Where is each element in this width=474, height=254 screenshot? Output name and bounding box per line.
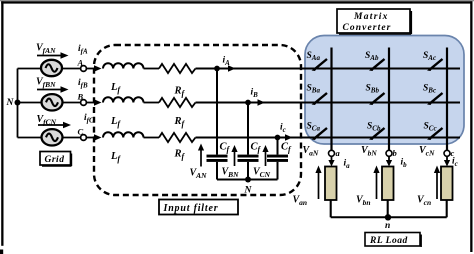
voltage arrow Vbn <box>356 166 380 208</box>
svg-text:Input filter: Input filter <box>163 203 219 214</box>
capacitor Cf phase A <box>207 69 231 180</box>
load element phase b <box>382 167 394 201</box>
wire phase B to converter <box>196 101 461 103</box>
wire output line b <box>388 48 390 151</box>
RL Load label <box>365 233 421 248</box>
load element phase c <box>441 167 453 201</box>
resistor Rf phase B <box>144 98 196 129</box>
wire b to load <box>386 156 392 166</box>
voltage arrow Van <box>293 166 322 208</box>
load element phase a <box>325 167 337 201</box>
Input filter label <box>159 200 238 215</box>
output terminal b <box>361 145 407 169</box>
inductor Lf phase A <box>103 63 143 94</box>
node A terminal <box>62 58 86 72</box>
current ic arrow <box>280 123 293 141</box>
inductor Lf phase B <box>103 97 143 128</box>
wire load a down <box>330 200 332 217</box>
output terminal c <box>419 145 458 168</box>
current iB arrow <box>251 88 266 106</box>
current ifC arrow <box>84 113 102 141</box>
wire left bus <box>17 69 19 138</box>
voltage arrow VAN <box>190 144 208 181</box>
wire phase C to converter <box>196 136 461 138</box>
voltage arrow VfCN <box>37 114 72 128</box>
wire output line a <box>330 48 332 151</box>
switch SAb <box>365 51 385 71</box>
current iA arrow <box>223 56 236 72</box>
inductor Lf phase C <box>103 132 143 163</box>
voltage arrow VfAN <box>36 43 69 59</box>
resistor Rf phase A <box>144 64 196 98</box>
svg-text:N: N <box>244 186 253 196</box>
wire load b down <box>387 200 389 217</box>
wire cap neutral rail <box>217 179 278 181</box>
switch SCc <box>424 122 443 141</box>
svg-text:N: N <box>6 98 15 108</box>
output terminal a <box>303 145 351 170</box>
wire c to load <box>444 156 450 166</box>
node junction phase A cap <box>214 66 220 72</box>
input filter dashed boundary <box>94 45 301 195</box>
wire load neutral rail <box>331 216 447 218</box>
svg-text:b: b <box>393 148 397 158</box>
resistor Rf phase C <box>144 133 196 161</box>
wire output line c <box>446 48 448 151</box>
source VfCN <box>18 129 63 145</box>
switch SCa <box>307 122 328 141</box>
switch SAa <box>307 51 328 71</box>
wire phase A to converter <box>196 67 461 69</box>
node B terminal <box>63 92 87 106</box>
node N grid neutral <box>6 98 21 108</box>
svg-text:Converter: Converter <box>343 23 392 33</box>
current ifB arrow <box>78 78 102 106</box>
voltage arrow VBN <box>222 145 240 179</box>
switch SBb <box>366 84 385 106</box>
node n <box>385 214 391 231</box>
source VfBN <box>18 94 63 110</box>
svg-text:n: n <box>385 221 390 231</box>
svg-text:RL Load: RL Load <box>369 236 408 246</box>
voltage arrow Vcn <box>417 166 440 208</box>
svg-text:Grid: Grid <box>45 155 65 165</box>
node junction phase C cap <box>275 135 281 141</box>
source VfAN <box>18 60 63 76</box>
voltage arrow VfBN <box>36 77 69 93</box>
voltage arrow VCN <box>253 145 271 179</box>
node C terminal <box>63 127 87 141</box>
node N filter <box>244 177 253 196</box>
switch SAc <box>423 51 443 71</box>
Matrix Converter label <box>337 9 411 34</box>
wire load c down <box>446 200 448 217</box>
switch SBc <box>423 84 443 106</box>
matrix converter block U1 <box>305 36 464 145</box>
capacitor Cf phase C <box>267 138 292 180</box>
svg-text:Matrix: Matrix <box>353 12 389 22</box>
Grid label <box>40 152 72 167</box>
capacitor Cf phase B <box>238 103 262 180</box>
wire a to load <box>328 156 334 166</box>
switch SBa <box>307 84 328 106</box>
current ifA arrow <box>78 44 102 72</box>
switch SCb <box>367 122 385 141</box>
node junction phase B cap <box>245 100 251 106</box>
